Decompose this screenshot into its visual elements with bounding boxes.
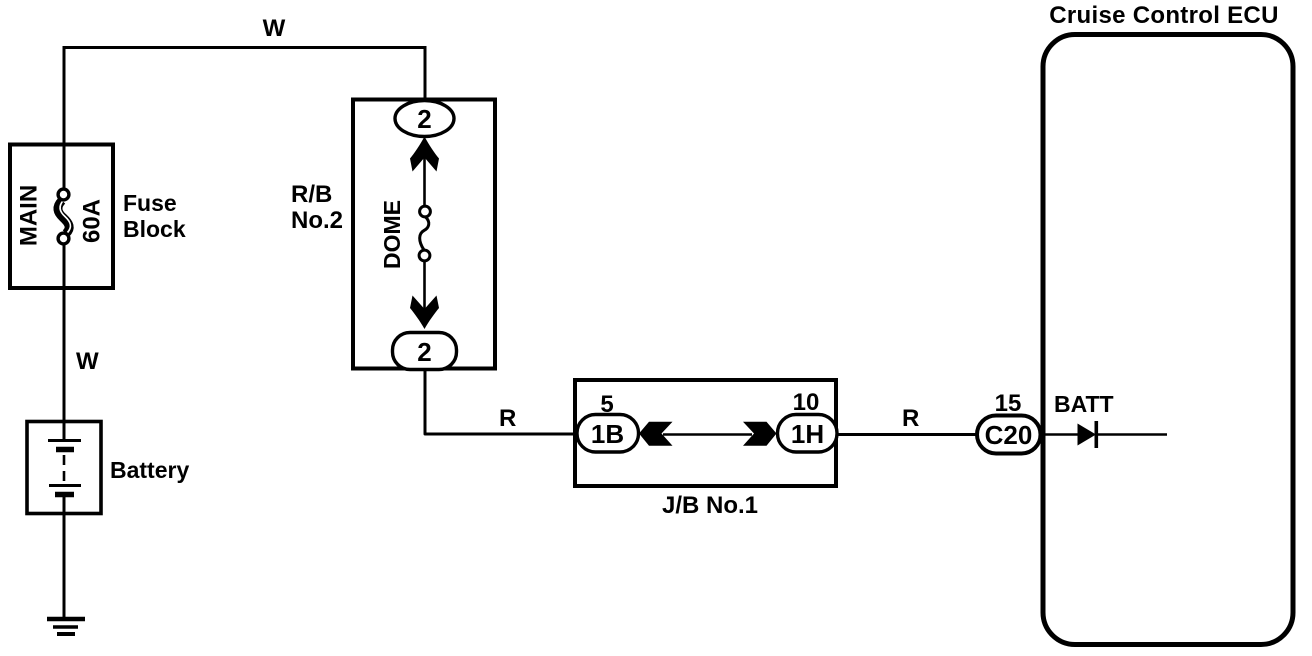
svg-text:Fuse: Fuse (123, 190, 177, 216)
wire W: fuse block to battery (63, 290, 66, 441)
wire W: top horizontal run (63, 46, 427, 49)
battery cell plates (48, 441, 81, 495)
wire: inside fuse block (bottom) (63, 244, 66, 290)
svg-text:2: 2 (417, 337, 431, 367)
wire: fuse DOME to arrow down (423, 261, 426, 312)
svg-text:1H: 1H (791, 419, 824, 449)
svg-text:R: R (499, 405, 516, 432)
svg-text:No.2: No.2 (291, 207, 343, 234)
svg-text:15: 15 (995, 390, 1022, 417)
wire R: J/B No.1 to C20 (838, 433, 978, 436)
wire: drop into R/B No.2 (424, 46, 427, 100)
Cruise Control ECU box (1043, 35, 1293, 645)
arrow up (into connector 2) (410, 137, 439, 172)
svg-text:1B: 1B (591, 419, 624, 449)
svg-text:60A: 60A (79, 199, 106, 243)
svg-text:Battery: Battery (110, 457, 189, 483)
R/B No.2 box (353, 100, 495, 369)
svg-text:2: 2 (417, 104, 431, 134)
svg-text:Cruise Control ECU: Cruise Control ECU (1049, 2, 1278, 29)
connector 2 (bottom, R/B No.2) (393, 333, 457, 370)
fusible link MAIN 60A (fuse symbol) (58, 189, 71, 244)
svg-text:W: W (263, 15, 286, 42)
wire: ECU border to diode (1041, 433, 1078, 436)
arrow down (into connector 2 bottom) (410, 296, 439, 330)
svg-text:W: W (76, 348, 99, 375)
svg-text:C20: C20 (985, 420, 1033, 450)
battery box (27, 422, 101, 514)
connector 1B (577, 415, 639, 453)
fuse DOME (419, 206, 430, 261)
connector C20 (977, 416, 1041, 454)
ground (47, 619, 85, 634)
wire: diode to end (1097, 433, 1167, 436)
svg-text:J/B No.1: J/B No.1 (662, 492, 758, 519)
fuse block MAIN box (10, 145, 113, 289)
wire: R/B No.2 connector 2 down and right to J/B No.1 (425, 369, 573, 434)
svg-text:DOME: DOME (379, 200, 405, 269)
wire: J/B No.1 internal link between arrows (663, 433, 752, 436)
svg-text:R: R (902, 405, 919, 432)
arrow left (J/B No.1) (639, 422, 673, 446)
arrow right (J/B No.1) (743, 422, 777, 446)
wire: inside fuse block (top) (63, 144, 66, 190)
svg-text:MAIN: MAIN (16, 185, 43, 246)
svg-text:R/B: R/B (291, 181, 332, 208)
diode D (inside ECU) (1078, 421, 1099, 448)
wire: arrow to fuse DOME (423, 150, 426, 207)
svg-text:Block: Block (123, 216, 186, 242)
svg-text:BATT: BATT (1054, 391, 1114, 417)
connector 1H (778, 415, 838, 453)
wire W: fuse block top vertical (63, 46, 66, 143)
svg-text:10: 10 (793, 389, 820, 416)
wire: battery to ground (63, 496, 66, 618)
J/B No.1 box (575, 380, 836, 486)
connector 2 (top, R/B No.2) (395, 101, 454, 137)
